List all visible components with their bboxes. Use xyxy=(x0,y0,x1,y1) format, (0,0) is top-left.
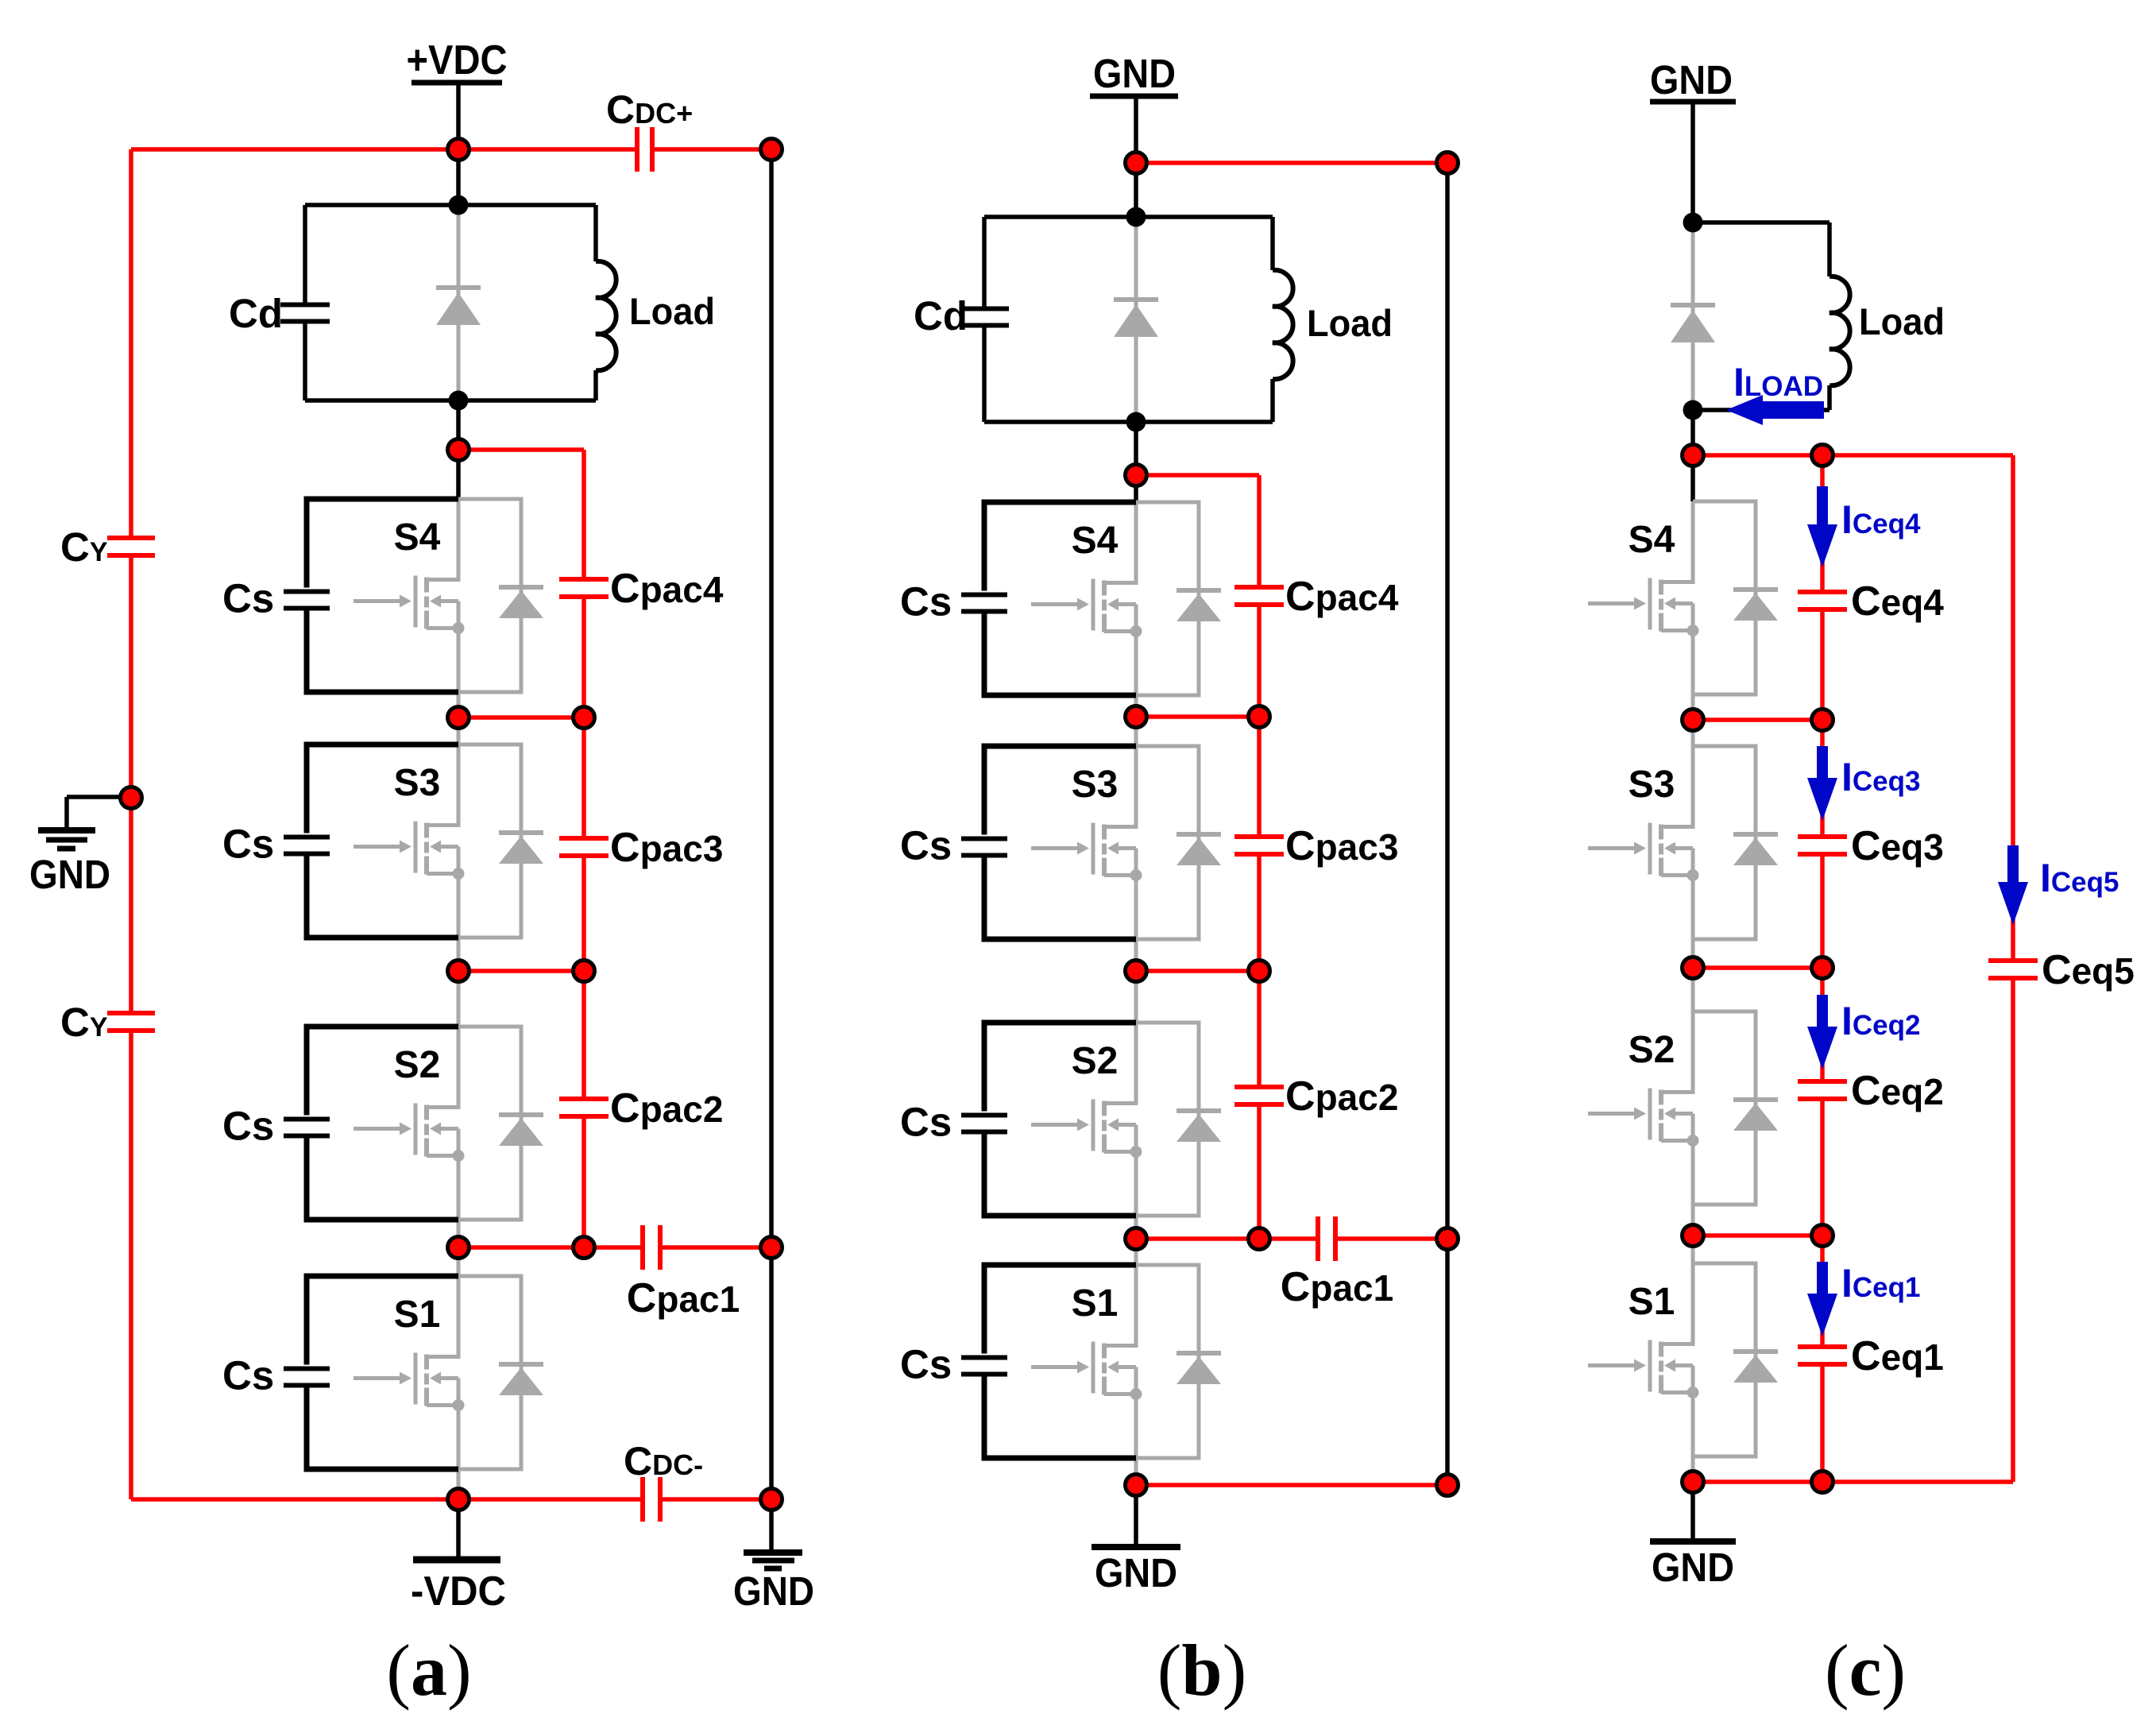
svg-text:Cpac2: Cpac2 xyxy=(1285,1073,1398,1120)
svg-text:Load: Load xyxy=(1307,302,1393,344)
svg-text:S2: S2 xyxy=(394,1044,441,1086)
svg-text:Cpac4: Cpac4 xyxy=(1285,574,1399,620)
svg-text:Cpac3: Cpac3 xyxy=(1285,823,1398,869)
svg-text:Ceq4: Ceq4 xyxy=(1851,578,1944,625)
svg-text:S1: S1 xyxy=(394,1294,441,1336)
svg-text:Cd: Cd xyxy=(914,293,968,338)
svg-text:Cs: Cs xyxy=(900,1342,952,1387)
svg-text:GND: GND xyxy=(733,1568,814,1614)
svg-text:S4: S4 xyxy=(394,516,441,559)
svg-text:Ceq1: Ceq1 xyxy=(1851,1333,1944,1379)
svg-text:Ceq2: Ceq2 xyxy=(1851,1068,1944,1114)
svg-text:Cs: Cs xyxy=(222,576,274,621)
svg-text:S1: S1 xyxy=(1629,1281,1675,1323)
svg-text:Load: Load xyxy=(1859,300,1945,342)
svg-text:S1: S1 xyxy=(1072,1282,1119,1325)
svg-text:+VDC: +VDC xyxy=(407,37,508,83)
svg-text:(b): (b) xyxy=(1157,1630,1246,1711)
svg-text:Cs: Cs xyxy=(900,1100,952,1145)
svg-text:Cd: Cd xyxy=(229,291,283,336)
svg-text:S4: S4 xyxy=(1629,519,1675,561)
svg-text:Cpac1: Cpac1 xyxy=(627,1275,740,1321)
svg-text:Cs: Cs xyxy=(222,1104,274,1149)
svg-text:Cpac1: Cpac1 xyxy=(1281,1264,1393,1310)
svg-text:S2: S2 xyxy=(1072,1040,1119,1082)
svg-text:Load: Load xyxy=(629,290,715,332)
svg-text:Cs: Cs xyxy=(900,579,952,625)
svg-text:-VDC: -VDC xyxy=(411,1568,506,1615)
svg-text:GND: GND xyxy=(1650,57,1733,102)
svg-text:S3: S3 xyxy=(1072,764,1119,806)
svg-text:GND: GND xyxy=(1652,1545,1734,1590)
svg-text:GND: GND xyxy=(1093,51,1176,96)
svg-text:Ceq5: Ceq5 xyxy=(2042,947,2135,993)
svg-text:Cs: Cs xyxy=(222,1353,274,1398)
svg-text:GND: GND xyxy=(1095,1550,1177,1595)
svg-text:Cpac2: Cpac2 xyxy=(610,1085,723,1131)
svg-text:Cpac4: Cpac4 xyxy=(610,566,724,612)
svg-text:Cpac3: Cpac3 xyxy=(610,825,723,871)
svg-text:GND: GND xyxy=(29,852,110,897)
svg-text:S3: S3 xyxy=(394,762,441,804)
svg-text:S4: S4 xyxy=(1072,520,1119,562)
svg-text:Cs: Cs xyxy=(222,822,274,867)
svg-text:(c): (c) xyxy=(1825,1630,1906,1711)
svg-text:Cs: Cs xyxy=(900,823,952,868)
svg-text:(a): (a) xyxy=(386,1630,471,1711)
svg-text:S3: S3 xyxy=(1629,764,1675,806)
svg-text:S2: S2 xyxy=(1629,1029,1675,1071)
svg-text:Ceq3: Ceq3 xyxy=(1851,823,1944,869)
